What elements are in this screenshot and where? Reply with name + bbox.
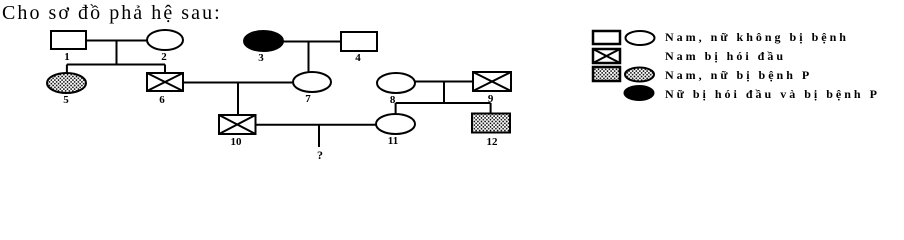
marriage line 10-11 bbox=[256, 124, 377, 126]
marriage line 8-9 bbox=[415, 81, 473, 83]
svg-text:Nam bị hói đầu: Nam bị hói đầu bbox=[665, 49, 786, 63]
drop wire to 11 bbox=[395, 103, 397, 114]
individual 2 (unaffected female circle) bbox=[147, 30, 183, 50]
svg-text:4: 4 bbox=[355, 52, 361, 64]
descent drop from couple 1-2 bbox=[116, 41, 118, 65]
legend circle unaffected female bbox=[626, 31, 655, 45]
individual 10 (bald male, crossed square) bbox=[219, 115, 256, 134]
drop wire to 12 bbox=[490, 103, 492, 114]
svg-text:3: 3 bbox=[258, 52, 264, 64]
marriage line 3-4 bbox=[283, 41, 341, 43]
legend filled circle bald and disease P female bbox=[624, 86, 654, 101]
individual 7 (unaffected female circle) bbox=[293, 72, 331, 92]
individual 4 (unaffected male square) bbox=[341, 32, 377, 51]
svg-text:?: ? bbox=[317, 148, 323, 160]
svg-text:5: 5 bbox=[63, 94, 69, 106]
svg-text:7: 7 bbox=[305, 93, 311, 105]
svg-text:Nữ bị hói đầu và bị bệnh P: Nữ bị hói đầu và bị bệnh P bbox=[665, 87, 880, 101]
legend dotted square disease P male bbox=[593, 67, 620, 81]
legend crossed square bald male bbox=[593, 49, 620, 63]
svg-text:6: 6 bbox=[159, 94, 165, 106]
descent drop from couple 8-9 bbox=[443, 82, 445, 104]
individual 1 (unaffected male square) bbox=[51, 31, 86, 49]
legend dotted circle disease P female bbox=[625, 68, 654, 82]
descent drop from couple 6-7 to 10 bbox=[237, 83, 239, 116]
svg-text:11: 11 bbox=[388, 135, 398, 147]
individual 9 (bald male, crossed square) bbox=[473, 72, 511, 91]
svg-text:10: 10 bbox=[231, 136, 243, 148]
individual 12 (male with disease P, dotted square) bbox=[472, 114, 510, 133]
individual 8 (unaffected female circle) bbox=[377, 73, 415, 93]
individual 3 (affected female filled circle) bbox=[244, 31, 283, 51]
svg-text:1: 1 bbox=[64, 51, 70, 63]
drop wire to 5 bbox=[66, 65, 68, 74]
descent drop from couple 3-4 to 7 bbox=[308, 42, 310, 73]
individual 6 (bald male, crossed square) bbox=[147, 73, 183, 91]
legend square unaffected male bbox=[593, 31, 620, 44]
marriage line 1-2 bbox=[86, 40, 147, 42]
descent drop to unknown child ? bbox=[318, 125, 320, 147]
svg-text:2: 2 bbox=[161, 51, 167, 63]
sibling line children of 8-9 bbox=[396, 102, 491, 104]
individual 5 (female with disease P, dotted circle) bbox=[47, 73, 86, 93]
marriage line 6-7 bbox=[183, 82, 293, 84]
svg-text:12: 12 bbox=[487, 136, 499, 148]
individual 11 (unaffected female circle) bbox=[376, 114, 415, 134]
svg-text:Nam, nữ không bị bệnh: Nam, nữ không bị bệnh bbox=[665, 30, 849, 44]
svg-text:Cho sơ đồ phả hệ sau:: Cho sơ đồ phả hệ sau: bbox=[2, 2, 222, 24]
drop wire to 6 bbox=[164, 65, 166, 74]
sibling line children of 1-2 bbox=[67, 64, 165, 66]
svg-text:Nam, nữ bị bệnh P: Nam, nữ bị bệnh P bbox=[665, 68, 812, 82]
